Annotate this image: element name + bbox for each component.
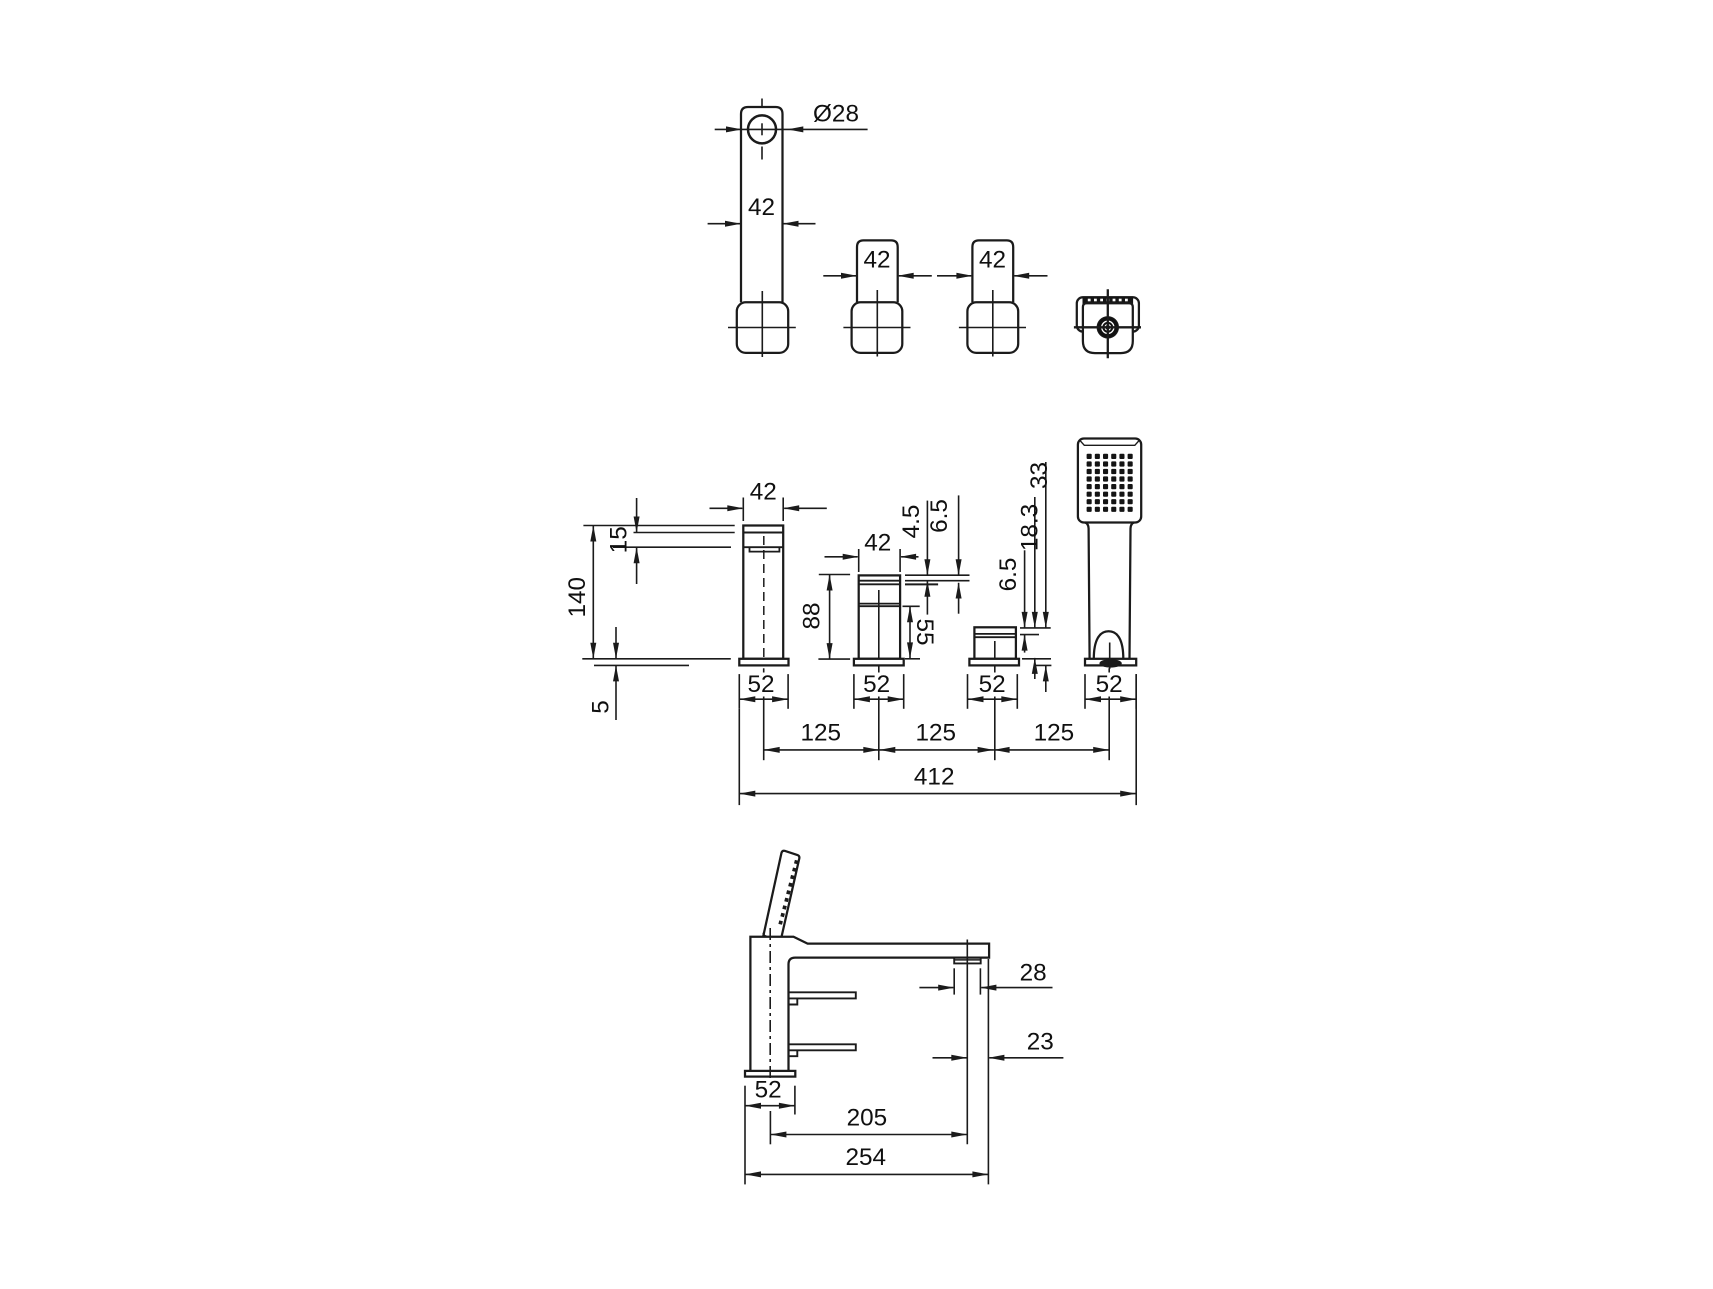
412 dim extension lines [738, 709, 740, 805]
dimension 52 line [854, 698, 904, 700]
spout front dashed centerline [763, 536, 765, 657]
valve2 front body [974, 627, 1016, 659]
valve1 plan view body [857, 240, 898, 302]
dimension 42 valve2 plan [937, 275, 971, 277]
svg-text:5: 5 [588, 700, 615, 714]
spout base centerline vertical [761, 291, 763, 357]
svg-text:52: 52 [755, 1077, 782, 1104]
dimension 125 (2) [879, 749, 993, 751]
svg-text:140: 140 [564, 577, 591, 618]
handshower pivot arc [763, 933, 767, 937]
dimension 52 extension lines [738, 674, 740, 709]
valve2 extension lines right [1020, 627, 1051, 629]
handshower hose nut (dark) [1099, 659, 1121, 667]
dimension 412 [739, 793, 1136, 795]
valve1 front base plate [854, 659, 904, 666]
dimension 42 valve1 front extension lines [858, 549, 860, 572]
handshower front head [1078, 439, 1141, 523]
dimension 42 spout front [710, 507, 743, 509]
svg-text:55: 55 [911, 618, 938, 645]
valve2 plan base plate [967, 302, 1018, 353]
side view base plate [745, 1071, 795, 1077]
spout front body [743, 526, 783, 659]
handshower face edge band with nozzle dots [1083, 297, 1133, 304]
dimension 125 (3) [994, 749, 1110, 751]
side view inlet pipe 1 [789, 992, 856, 998]
spout front aerator line [743, 546, 783, 548]
valve2 front centerline [994, 641, 996, 673]
handshower front top bevel line [1080, 440, 1140, 445]
svg-text:4.5: 4.5 [898, 505, 925, 539]
spout front aerator tray [750, 547, 780, 551]
valve2 front base plate [969, 659, 1019, 666]
dimension 52 extension lines [1084, 674, 1086, 709]
extension line spout aerator for 15 [613, 546, 731, 548]
dimension 88 [829, 575, 831, 660]
dimension 28 extension lines [953, 968, 955, 994]
svg-text:125: 125 [1034, 720, 1075, 747]
valve1 front handle lines [859, 580, 900, 582]
svg-text:125: 125 [916, 720, 957, 747]
side view aerator tray [954, 958, 981, 964]
svg-text:42: 42 [863, 247, 890, 274]
side view outlet centerline / 205 extension [966, 940, 968, 1145]
spout plan view base plate [737, 302, 788, 353]
side view spout body and arm outline [750, 937, 989, 1071]
dimension 4.5 [926, 501, 928, 575]
svg-text:28: 28 [1020, 960, 1047, 987]
dimension 52 line [968, 698, 1018, 700]
spout plan view body [741, 107, 783, 302]
extension line plate bottom for 5 [594, 664, 689, 666]
svg-text:42: 42 [864, 530, 891, 557]
extension line spout top for 140 [583, 525, 734, 527]
dimension 23 [933, 1057, 967, 1059]
dimension 52 line [1085, 698, 1136, 700]
handshower outlet black disc [1097, 317, 1118, 338]
side view 254 extension right [987, 959, 989, 1184]
svg-text:52: 52 [979, 671, 1006, 698]
handshower hose arch [1094, 631, 1124, 659]
dimension 42 valve1 plan [823, 275, 856, 277]
svg-text:23: 23 [1027, 1029, 1054, 1056]
dimension 6.5 valve1 [958, 495, 960, 574]
dimension 6.5 valve2 [1024, 550, 1026, 627]
valve1 front body [859, 575, 900, 658]
dimension 42 valve1 front [825, 556, 858, 558]
dimension 254 [745, 1173, 988, 1175]
valve2 plan centerline vertical [992, 290, 994, 357]
dimension 42 spout front extension lines [742, 498, 744, 522]
valve1 handle extension lines right [905, 574, 970, 576]
valve2 plan view body [972, 240, 1013, 302]
svg-text:205: 205 [847, 1104, 888, 1131]
valve2 plan centerline horizontal [959, 327, 1026, 329]
dimension 33 [1045, 462, 1047, 628]
extension line spout cap for 15 [634, 532, 735, 534]
dimension 125 (1) [764, 749, 880, 751]
handshower front handle [1085, 522, 1090, 658]
spout spray hole circle [748, 115, 776, 143]
dimension 52 extension lines [967, 674, 969, 709]
handshower holder crosshair horizontal [1074, 326, 1141, 328]
valve1 plan centerline vertical [876, 290, 878, 357]
spout base centerline horizontal [728, 327, 796, 329]
svg-text:52: 52 [747, 671, 774, 698]
side view body dash-dot centerline [769, 928, 771, 1078]
svg-text:Ø28: Ø28 [813, 101, 859, 128]
spout front base plate [739, 659, 788, 666]
125 dim extension centerlines [763, 668, 765, 672]
svg-text:42: 42 [979, 247, 1006, 274]
svg-text:88: 88 [799, 602, 826, 629]
dimension 55 extension tick [903, 605, 920, 607]
spout circle centerline vertical [761, 99, 763, 108]
svg-text:18.3: 18.3 [1017, 504, 1044, 551]
svg-text:15: 15 [606, 526, 633, 553]
valve2 front handle lines [974, 633, 1016, 635]
svg-text:42: 42 [750, 479, 777, 506]
svg-text:125: 125 [801, 720, 842, 747]
dimension 140 [592, 526, 594, 659]
dimension 18.3 [1034, 497, 1036, 628]
dimension 52 extension lines [853, 674, 855, 709]
dimension line diameter 28 [715, 128, 868, 130]
side view inlet pipe 2 [789, 1044, 856, 1050]
dimension 5 [615, 627, 617, 659]
handshower holder body plan (rounded square) [1083, 303, 1133, 353]
valve1 plan base plate [852, 302, 903, 353]
dimension 52 side extension lines [744, 1086, 746, 1185]
handshower holder bracket plan [1077, 297, 1139, 331]
dimension 205 [770, 1134, 967, 1136]
handshower arch centerline [1109, 643, 1111, 669]
dimension 52 line [739, 698, 788, 700]
side view handshower face dots [794, 860, 798, 864]
svg-text:33: 33 [1026, 462, 1053, 489]
valve1 plan centerline horizontal [843, 327, 910, 329]
205 left extension (body centerline) [769, 1111, 771, 1144]
dimension 55 [909, 606, 911, 658]
extension line deck surface [582, 658, 731, 660]
spout front top cap line [743, 532, 783, 534]
handshower front nozzle grid [1087, 454, 1092, 459]
svg-text:254: 254 [846, 1144, 887, 1171]
dimension 28 [919, 987, 953, 989]
valve1 front centerline [878, 590, 880, 673]
dimension 52 side [745, 1105, 795, 1107]
svg-text:412: 412 [914, 763, 955, 790]
dimension 88 extension lines [819, 574, 850, 576]
dimension 42 spout plan [708, 223, 740, 225]
handshower front base plate [1085, 659, 1136, 666]
svg-text:6.5: 6.5 [926, 499, 953, 533]
svg-text:52: 52 [863, 671, 890, 698]
side view tilted handshower [763, 851, 799, 937]
svg-text:52: 52 [1096, 671, 1123, 698]
dimension 15 [636, 498, 638, 533]
svg-text:6.5: 6.5 [995, 558, 1022, 592]
svg-text:42: 42 [748, 194, 775, 221]
handshower holder crosshair vertical [1107, 289, 1109, 358]
